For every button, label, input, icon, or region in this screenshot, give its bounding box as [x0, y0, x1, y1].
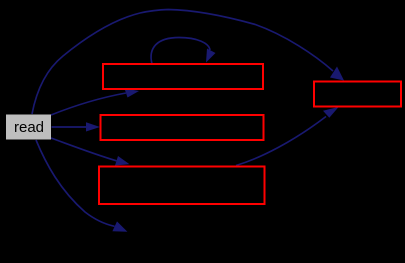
node box3 (large lower red box): [99, 167, 265, 205]
node box2 (middle red box): [101, 115, 264, 140]
wire: edge read to box2: [52, 122, 101, 131]
wire: edge box3 to right box: [236, 107, 339, 166]
wire: edge read to bottom node: [36, 140, 127, 232]
wire: edge read to box3: [51, 138, 130, 166]
wire: edge read to box1: [51, 89, 139, 116]
node right box: [314, 82, 401, 107]
svg-text:read: read: [14, 119, 44, 136]
wire: edge read to right box (big top curve): [32, 10, 344, 115]
node box1 (top red box): [103, 64, 263, 89]
node read (grey current node): [6, 115, 51, 140]
wire: self loop on box1: [151, 38, 215, 65]
